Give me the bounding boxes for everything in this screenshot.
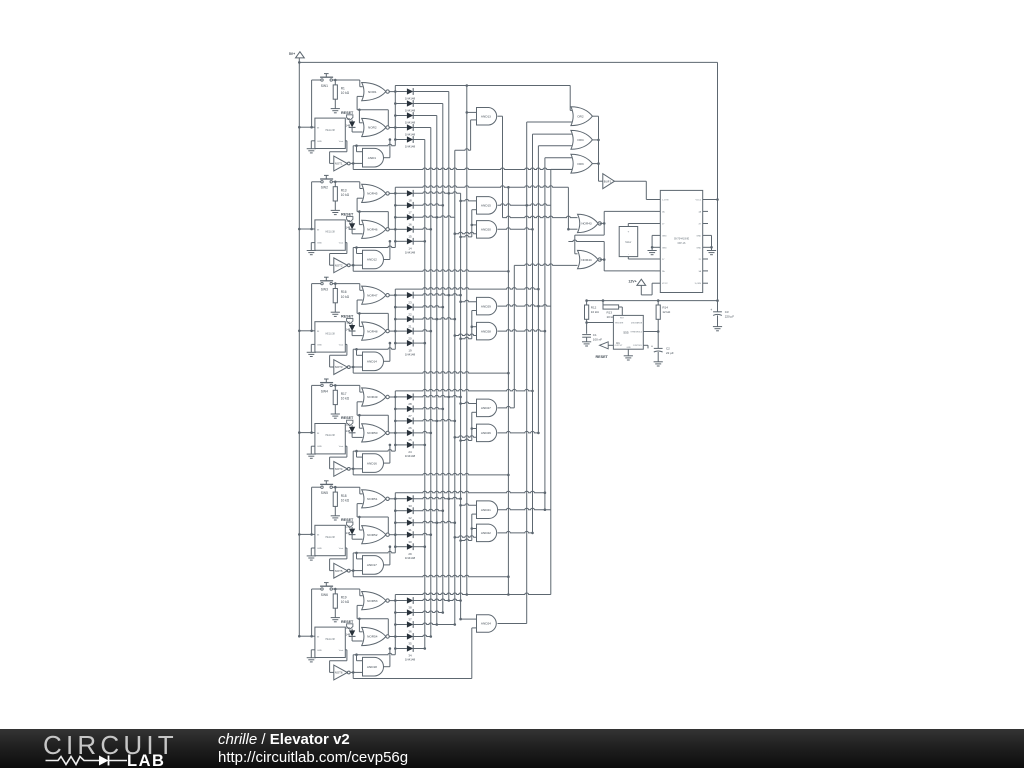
diode 1N4148 row 2 [395, 306, 407, 308]
svg-text:38: 38 [408, 606, 412, 610]
wire [507, 593, 510, 596]
pin VCC2 [655, 282, 660, 284]
svg-text:R1: R1 [341, 87, 345, 91]
switch SW3 [324, 276, 329, 278]
diode 1N4148 row 2 [395, 204, 407, 206]
wire [389, 330, 395, 332]
wire [357, 558, 363, 560]
wire [717, 62, 719, 311]
wire [389, 498, 395, 500]
svg-text:NOT6: NOT6 [335, 671, 343, 675]
wire [424, 140, 426, 649]
wire [357, 253, 363, 255]
svg-text:TRIGGER: TRIGGER [615, 322, 624, 324]
wire [389, 534, 395, 536]
wire [353, 348, 395, 350]
resistor R12 10 k [586, 301, 588, 305]
diode 1N4148 row 3 [395, 624, 407, 626]
svg-text:RESET: RESET [341, 213, 354, 217]
wire [514, 264, 577, 266]
nor gate NOR52 [362, 526, 386, 544]
wire [394, 187, 396, 241]
svg-text:21: 21 [408, 324, 412, 328]
wire [592, 115, 598, 117]
resistor R1 10 k [334, 80, 336, 85]
wire [353, 372, 508, 374]
wire [299, 330, 315, 332]
wire [384, 157, 390, 159]
and gate AND22 [477, 524, 497, 542]
svg-text:NOT1: NOT1 [335, 162, 343, 166]
svg-text:AND29: AND29 [481, 304, 491, 308]
ic box U5 HEF4538 [315, 525, 345, 555]
or gate OR3 [571, 154, 593, 173]
nor gate NOR49 [362, 388, 386, 406]
diode 1N4148 row 1 [395, 294, 407, 296]
wire [345, 343, 347, 345]
wire [498, 406, 515, 407]
wire [353, 551, 395, 553]
wire [643, 331, 658, 333]
ground [311, 343, 315, 345]
svg-text:NOT3: NOT3 [335, 365, 343, 369]
wire [312, 181, 321, 183]
pin 1A [655, 210, 660, 212]
pin 3Y [703, 258, 708, 260]
nor gate NOR48 [362, 322, 386, 340]
wire [384, 666, 390, 668]
svg-text:AND15: AND15 [481, 204, 491, 208]
ground [331, 311, 340, 313]
ic box U1 HEF4538 [315, 118, 345, 148]
svg-text:AND16: AND16 [367, 461, 377, 465]
ground [331, 617, 340, 619]
svg-text:R18: R18 [341, 494, 347, 498]
and gate AND16 [363, 454, 384, 473]
wire [615, 180, 647, 182]
svg-text:AND14: AND14 [367, 360, 377, 364]
wire [352, 248, 354, 272]
wire [395, 186, 568, 188]
pin 4A [703, 210, 708, 212]
and gate AND14 [363, 352, 384, 371]
ground [331, 515, 340, 517]
wire [471, 514, 473, 540]
svg-text:C2: C2 [666, 347, 670, 351]
svg-text:1N4148: 1N4148 [405, 97, 416, 101]
diode D9 1N4148 [351, 323, 353, 325]
wire [352, 655, 354, 679]
or gate OR2 [571, 107, 593, 126]
pin 4Y [703, 223, 708, 225]
svg-text:DIP-16: DIP-16 [678, 242, 686, 245]
diode 1N4148 row 3 [395, 318, 407, 320]
svg-text:HE1L/38: HE1L/38 [325, 638, 335, 641]
svg-text:SW3: SW3 [321, 288, 328, 292]
svg-text:1N4148: 1N4148 [405, 251, 416, 255]
and gate AND18 [363, 657, 384, 676]
diode 1N4148 row 1 [395, 396, 407, 398]
svg-text:R16: R16 [341, 290, 347, 294]
nor gate NOR50 [362, 424, 386, 442]
svg-text:NOR50: NOR50 [367, 431, 378, 435]
svg-text:10 kΩ: 10 kΩ [341, 295, 350, 299]
svg-text:26: 26 [408, 426, 412, 430]
pin 3,4 EN [703, 282, 708, 284]
and gate AND24 [477, 615, 497, 632]
wire [352, 146, 354, 170]
diode 1N4148 row 5 [395, 240, 407, 242]
switch SW2 [324, 174, 329, 176]
svg-text:RESET: RESET [341, 111, 354, 115]
pin GND [655, 234, 660, 236]
inverter NOT2 [334, 258, 348, 273]
inverter NOT4 [334, 462, 348, 477]
diode 1N4148 row 4 [395, 127, 407, 129]
wire [503, 216, 578, 218]
nor gate NOR54 [362, 627, 386, 645]
wire [502, 116, 504, 217]
and gate AND26 [477, 424, 497, 442]
ground [311, 445, 315, 447]
svg-text:R13: R13 [341, 188, 347, 192]
diode 1N4148 row 5 [395, 546, 407, 548]
wire [312, 588, 321, 590]
svg-text:AND26: AND26 [481, 431, 491, 435]
resistor R13 10 k [602, 301, 604, 307]
wire [395, 85, 570, 87]
diode D10 1N4148 [351, 425, 353, 427]
svg-text:GND: GND [696, 247, 701, 249]
nor gate NOR2 [362, 118, 386, 136]
svg-text:23: 23 [408, 300, 412, 304]
svg-text:1N4148: 1N4148 [405, 109, 416, 113]
svg-text:HE1L/38: HE1L/38 [325, 129, 335, 132]
wire [345, 547, 347, 549]
svg-text:37: 37 [408, 618, 412, 622]
and gate AND29 [477, 297, 497, 315]
wire [389, 600, 395, 602]
pin 2A [655, 270, 660, 272]
wire [312, 79, 321, 81]
wire [454, 318, 457, 321]
svg-text:C1: C1 [593, 333, 597, 337]
svg-text:D12: D12 [345, 626, 351, 630]
svg-text:+: + [710, 308, 712, 312]
wire [353, 678, 472, 680]
wire [353, 144, 395, 146]
svg-text:12 kΩ: 12 kΩ [662, 310, 671, 314]
diode 1N4148 row 5 [395, 342, 407, 344]
svg-text:Vout: Vout [339, 343, 344, 346]
svg-text:10 kΩ: 10 kΩ [341, 498, 350, 502]
wire [600, 222, 605, 224]
pin VCC1 [703, 199, 708, 201]
and gate AND15 [477, 197, 497, 215]
wire [600, 259, 605, 261]
svg-text:SW4: SW4 [321, 389, 328, 393]
svg-text:AND17: AND17 [367, 563, 377, 567]
svg-text:10 kΩ: 10 kΩ [341, 397, 350, 401]
svg-text:AND27: AND27 [481, 406, 491, 410]
wire [352, 451, 354, 475]
svg-text:10 kΩ: 10 kΩ [341, 193, 350, 197]
wire [351, 468, 363, 470]
wire [332, 384, 359, 386]
switch SW6 [324, 582, 329, 584]
svg-text:GND: GND [317, 650, 322, 652]
wire [345, 242, 347, 244]
ic box U4 HEF4538 [315, 424, 345, 454]
wire [299, 228, 315, 230]
wire [352, 349, 354, 373]
svg-text:NOR44: NOR44 [581, 258, 592, 262]
wire [352, 553, 354, 577]
ic box U6 HEF4538 [315, 627, 345, 657]
svg-text:10 kΩ: 10 kΩ [341, 91, 350, 95]
diode 1N4148 row 1 [395, 600, 407, 602]
diode D6 1N4148 [351, 120, 353, 122]
svg-text:SW6: SW6 [321, 593, 328, 597]
svg-text:1N4148: 1N4148 [405, 145, 416, 149]
svg-text:OR4: OR4 [577, 138, 584, 142]
svg-text:36: 36 [408, 630, 412, 634]
wire [353, 246, 395, 248]
svg-text:AND28: AND28 [481, 329, 491, 333]
pin GND [703, 234, 708, 236]
diode 1N4148 row 4 [395, 228, 407, 230]
svg-text:AND21: AND21 [481, 508, 491, 512]
latch feedback wires NOR1/NOR2 [357, 95, 363, 97]
svg-text:28: 28 [408, 402, 412, 406]
ground [651, 235, 653, 247]
svg-text:NOT5: NOT5 [335, 569, 343, 573]
wire [353, 473, 508, 475]
wire [351, 570, 363, 572]
wire [567, 187, 569, 229]
wire [498, 305, 551, 307]
wire [332, 486, 359, 488]
resistor R17 10 k [334, 385, 336, 390]
ic box U2 HEF4538 [315, 220, 345, 250]
svg-text:VCC1: VCC1 [695, 200, 701, 202]
wire [498, 204, 551, 206]
svg-text:1N4148: 1N4148 [405, 352, 416, 356]
diode 1N4148 row 4 [395, 432, 407, 434]
svg-text:30: 30 [408, 540, 412, 544]
svg-text:-: - [628, 252, 629, 256]
wire [527, 121, 574, 123]
svg-text:1N4148: 1N4148 [405, 556, 416, 560]
diode 1N4148 row 3 [395, 115, 407, 117]
svg-text:NOR54: NOR54 [367, 635, 378, 639]
svg-text:VCC2: VCC2 [662, 283, 668, 285]
diode 1N4148 row 1 [395, 91, 407, 93]
svg-text:AND18: AND18 [367, 665, 377, 669]
svg-text:27: 27 [408, 414, 412, 418]
latch feedback wires NOR45/NOR46 [357, 197, 363, 199]
svg-text:R14: R14 [662, 306, 668, 310]
inverter NOT3 [334, 360, 348, 375]
svg-text:SW2: SW2 [321, 186, 328, 190]
svg-text:R19: R19 [341, 596, 347, 600]
diode 1N4148 row 2 [395, 612, 407, 614]
latch feedback wires NOR49/NOR50 [357, 401, 363, 403]
wire [345, 140, 347, 142]
svg-text:GND: GND [317, 446, 322, 448]
and gate AND28 [477, 322, 497, 340]
svg-text:220 µF: 220 µF [725, 314, 735, 318]
wire [498, 431, 539, 433]
capacitor C1 100 nF [582, 334, 591, 336]
svg-text:GND: GND [317, 243, 322, 245]
svg-text:AND24: AND24 [481, 622, 491, 626]
logo diode symbol [99, 756, 109, 766]
wire [312, 283, 321, 285]
svg-text:RESET: RESET [341, 314, 354, 318]
svg-text:5V+: 5V+ [289, 52, 295, 56]
wire [332, 588, 359, 590]
wire [389, 396, 395, 398]
diode D12 1N4148 [351, 629, 353, 631]
svg-text:OR3: OR3 [577, 162, 584, 166]
svg-text:33: 33 [408, 504, 412, 508]
wire [471, 412, 473, 440]
wire [395, 491, 545, 493]
svg-text:SW5: SW5 [321, 491, 328, 495]
svg-text:RESET: RESET [341, 518, 354, 522]
svg-text:GND: GND [627, 347, 632, 349]
svg-text:LAB: LAB [127, 752, 165, 768]
svg-text:35: 35 [408, 642, 412, 646]
wire [357, 354, 363, 356]
svg-text:AND20: AND20 [481, 228, 491, 232]
svg-text:GND: GND [696, 235, 701, 237]
wire [459, 200, 462, 203]
svg-text:20: 20 [408, 336, 412, 340]
svg-text:HE1L/38: HE1L/38 [325, 332, 335, 335]
wire [332, 181, 359, 183]
wire [384, 462, 390, 464]
svg-text:NOR2: NOR2 [368, 126, 377, 130]
svg-text:12V+: 12V+ [628, 279, 636, 283]
ic box U3 HEF4538 [315, 322, 345, 352]
wire [357, 151, 363, 153]
svg-text:D6: D6 [347, 117, 351, 121]
svg-text:NOR1: NOR1 [368, 90, 377, 94]
pin GND [703, 246, 708, 248]
wire [454, 623, 457, 626]
diode 1N4148 row 3 [395, 522, 407, 524]
wire [357, 660, 363, 662]
switch SW4 [324, 378, 329, 380]
wire [298, 62, 300, 636]
svg-text:32: 32 [408, 516, 412, 520]
ground [331, 413, 340, 415]
svg-text:NOR43: NOR43 [581, 222, 592, 226]
wire [627, 224, 629, 227]
wire [351, 162, 363, 164]
svg-text:1N4148: 1N4148 [405, 133, 416, 137]
wire [708, 199, 718, 201]
svg-text:THRESHOLD: THRESHOLD [630, 331, 642, 333]
wire [353, 270, 508, 272]
svg-text:17: 17 [408, 211, 412, 215]
resistor R14 12 k [657, 301, 659, 305]
wire [389, 636, 395, 638]
switch SW1 [324, 73, 329, 75]
or gate OR4 [571, 130, 593, 149]
pin GND [655, 246, 660, 248]
svg-text:D8: D8 [347, 219, 351, 223]
svg-text:R12: R12 [591, 306, 597, 310]
svg-text:Vout: Vout [339, 140, 344, 143]
and gate AND12 [363, 250, 384, 269]
svg-text:+: + [628, 230, 630, 234]
svg-text:Vout: Vout [339, 445, 344, 448]
svg-text:R13: R13 [607, 311, 613, 315]
svg-text:25: 25 [408, 438, 412, 442]
svg-text:GND: GND [317, 141, 322, 143]
wire [351, 671, 363, 673]
svg-text:100 nF: 100 nF [593, 337, 603, 341]
inverter NOT5 [334, 563, 348, 578]
wire [471, 311, 473, 339]
resistor R18 10 k [334, 487, 336, 492]
svg-text:OUTPUT: OUTPUT [615, 345, 624, 347]
wire [389, 432, 395, 434]
wire [299, 432, 315, 434]
power 12V+ [637, 279, 646, 285]
wire [345, 445, 347, 447]
diode 1N4148 row 4 [395, 636, 407, 638]
nor gate NOR45 [362, 184, 386, 202]
wire [498, 531, 533, 533]
svg-text:1N4148: 1N4148 [405, 658, 416, 662]
svg-text:NOR45: NOR45 [367, 192, 378, 196]
pin 1,2 EN [655, 199, 660, 201]
ground [582, 341, 591, 343]
svg-text:RESET: RESET [341, 416, 354, 420]
wire [351, 264, 363, 266]
ground [654, 361, 663, 363]
svg-text:Vout: Vout [339, 547, 344, 550]
diode 1N4148 row 5 [395, 444, 407, 446]
svg-text:+: + [651, 344, 653, 348]
diode 1N4148 row 2 [395, 103, 407, 105]
logo resistor symbol [46, 757, 100, 765]
resistor R13 10 k [334, 182, 336, 187]
wire [640, 285, 642, 295]
and gate AND1 [363, 148, 384, 167]
svg-text:555: 555 [623, 331, 628, 335]
and gate AND13 [477, 108, 497, 126]
diode 1N4148 row 1 [395, 498, 407, 500]
wire [395, 389, 532, 391]
wire [357, 456, 363, 458]
wire [312, 384, 321, 386]
wire [643, 344, 648, 346]
svg-text:HE1L/38: HE1L/38 [325, 434, 335, 437]
ground [311, 140, 315, 142]
svg-text:GND: GND [317, 344, 322, 346]
wire [459, 396, 462, 399]
motor M1 [619, 227, 638, 257]
svg-text:1N4148: 1N4148 [405, 121, 416, 125]
resistor R16 10 k [334, 284, 336, 289]
wire [471, 210, 473, 237]
svg-text:31: 31 [408, 528, 412, 532]
